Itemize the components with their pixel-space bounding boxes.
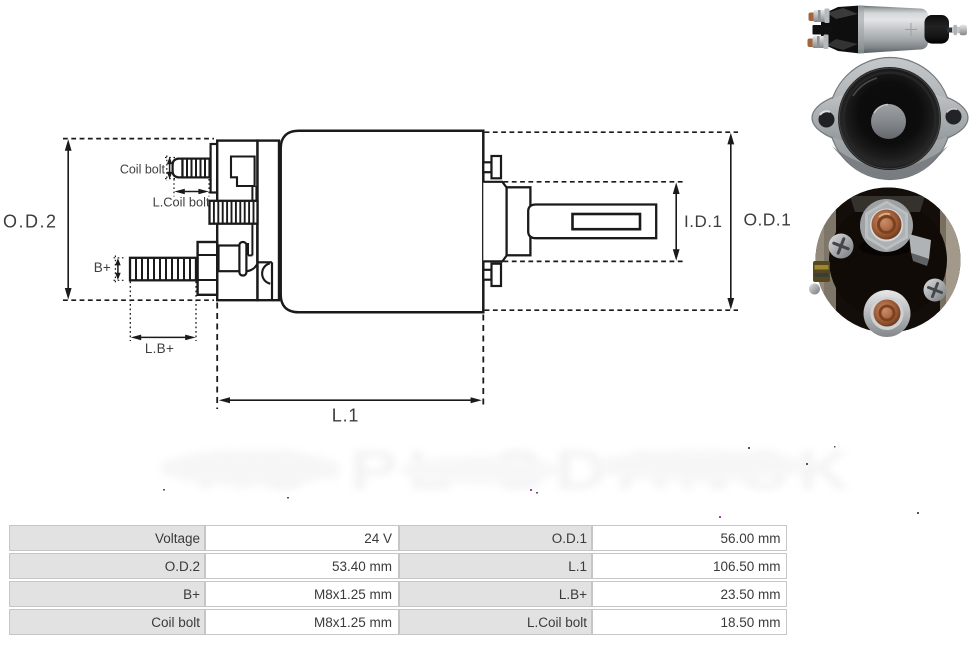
svg-text:O.D.2: O.D.2 <box>3 212 58 232</box>
photo3 right housing band <box>940 187 966 333</box>
photo3 bottom terminal copper <box>874 300 901 327</box>
plunger top retainer tab neck <box>483 162 491 172</box>
photo2 left ear hole <box>819 112 835 128</box>
photo1 solenoid side view <box>808 5 968 53</box>
photo3 left housing band <box>813 187 837 333</box>
photo3 right metal tab <box>909 234 931 259</box>
faint AS-PL watermark text <box>160 438 859 501</box>
photo3 top terminal hex nut <box>865 201 908 251</box>
dimension B+ arrow <box>115 258 121 280</box>
photo2 rubber ring highlights <box>844 73 936 165</box>
photo3 left screw <box>829 234 854 259</box>
plunger shaft <box>528 205 656 239</box>
dimension Coil bolt arrow <box>167 157 173 179</box>
coil bolt threads <box>183 159 210 178</box>
dimension L.Coil bolt dotted guides <box>174 179 209 197</box>
plunger top retainer tab cap <box>492 156 502 178</box>
dimension L.B+ arrow <box>131 335 196 341</box>
dimension Coil bolt dotted guides <box>165 156 176 182</box>
svg-text:L.1: L.1 <box>332 405 359 425</box>
photo1 mid terminal tab <box>813 25 832 35</box>
svg-text:O.D.1: O.D.1 <box>744 210 792 230</box>
dimension L.1 arrow <box>219 397 482 403</box>
B+ insulator capsule <box>239 242 246 276</box>
photo1 top stud nut <box>814 10 827 22</box>
WATERMARK <box>160 438 919 518</box>
svg-text:I.D.1: I.D.1 <box>684 212 722 231</box>
photo1 right black cap <box>925 15 950 44</box>
dimension O.D.1 arrow <box>727 133 734 310</box>
dimension I.D.1 dashed extension top <box>504 181 685 183</box>
dimension I.D.1 dashed extension bottom <box>504 260 685 262</box>
channel below bushing <box>248 224 257 263</box>
coil bolt tip <box>173 159 183 178</box>
dimension L.Coil bolt arrow <box>174 189 209 195</box>
photo3 right screw <box>924 279 947 302</box>
photo2 right ear hole <box>946 109 962 125</box>
photo1 top stud copper tip <box>809 13 816 22</box>
solenoid body <box>281 131 484 313</box>
photo3 body circle <box>816 188 961 333</box>
dimension L.1 dashed guides <box>217 303 483 410</box>
dust specks <box>163 446 919 514</box>
bracket half-moon detail <box>262 263 270 283</box>
plunger bottom retainer tab cap <box>492 264 502 286</box>
dimension O.D.1 dashed extension bottom <box>485 309 738 311</box>
plunger boss step1 <box>483 182 506 262</box>
photo1 rear housing facet top <box>827 8 858 19</box>
svg-text:L.B+: L.B+ <box>145 341 174 356</box>
photo2 rubber boot <box>838 67 941 170</box>
bracket step <box>258 262 272 300</box>
photo2 center metal disc <box>871 104 906 139</box>
photo3 nut shadow <box>859 238 913 256</box>
svg-text:B+: B+ <box>94 260 111 275</box>
dimension O.D.2 dashed extension bottom <box>63 299 214 301</box>
flange interior notch <box>231 157 255 187</box>
photo3 solenoid front view <box>809 187 966 337</box>
dimension O.D.2 dashed extension top <box>63 138 214 140</box>
photo3 upper dark gray metal <box>850 196 925 212</box>
photo3 bottom terminal collar <box>864 290 911 337</box>
coil bolt mounting plate <box>211 144 218 193</box>
photo1 metallic can <box>858 6 928 54</box>
dimension L.B+ dotted guides <box>130 282 196 342</box>
photo2 flange back view <box>812 58 968 180</box>
plunger slot <box>573 214 641 229</box>
notch-to-threads channel <box>252 186 256 201</box>
photo2 flange bottom shade <box>832 146 948 179</box>
photo1 can scratch mark <box>905 23 917 36</box>
photo3 left silver nub <box>809 284 820 295</box>
photo2 flange ear bar <box>812 88 968 148</box>
photo3 top terminal flange washer <box>860 199 913 252</box>
dimension I.D.1 arrow <box>673 182 680 260</box>
bracket skirt curve <box>246 262 258 271</box>
B+ hex nut <box>198 242 218 295</box>
photo1 rear black housing <box>821 6 860 54</box>
dimension B+ dotted guides <box>114 256 126 283</box>
B+ spacer <box>219 246 241 272</box>
spec table <box>9 523 787 637</box>
photo1 bottom stud copper tip <box>808 39 815 48</box>
photo1 rod end head <box>960 25 968 36</box>
photo2 flange round body <box>829 58 951 180</box>
photo3 inner black core <box>836 187 940 333</box>
plunger boss step2 <box>507 187 531 255</box>
photo1 plunger rod dark <box>947 28 955 33</box>
flange main plate <box>217 141 257 301</box>
photo1 can left seam <box>858 5 864 53</box>
dimension O.D.1 dashed extension top <box>485 131 738 133</box>
svg-text:L.Coil bolt: L.Coil bolt <box>153 195 210 210</box>
photo1 plunger rod bright <box>952 27 963 33</box>
dimension O.D.2 arrow <box>65 139 72 299</box>
photo3 left brass block <box>813 261 830 282</box>
PHOTOS <box>808 5 969 337</box>
svg-text:Coil bolt: Coil bolt <box>120 163 166 177</box>
plunger bottom retainer tab neck <box>483 270 491 280</box>
L.Coil bolt threaded bushing <box>210 201 258 224</box>
photo3 top terminal copper <box>872 210 902 240</box>
B+ bolt threads <box>130 258 196 281</box>
front bracket <box>258 141 280 301</box>
photo1 rear housing facet bottom <box>827 39 858 50</box>
photo1 bottom stud nut <box>813 36 826 48</box>
photo1 rod washer <box>954 25 958 35</box>
